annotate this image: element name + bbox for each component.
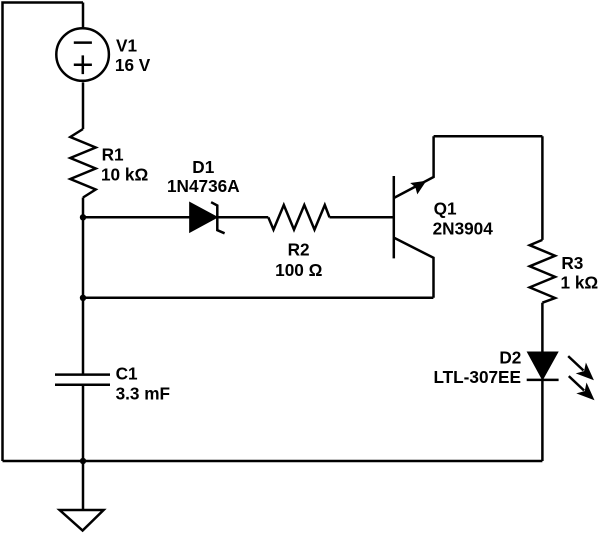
ground (60, 510, 104, 531)
svg-text:D1: D1 (192, 157, 214, 177)
wire R3 to D2 (541, 303, 544, 353)
label V1 (115, 36, 151, 75)
node junction ground (80, 458, 86, 464)
svg-text:V1: V1 (116, 36, 137, 56)
svg-text:3.3 mF: 3.3 mF (116, 384, 170, 404)
label Q1 (433, 198, 494, 238)
wire V1 top lead (82, 3, 85, 28)
svg-text:C1: C1 (116, 364, 138, 384)
svg-text:Q1: Q1 (434, 198, 457, 218)
wire R2 to Q1 base (330, 216, 394, 219)
resistor R3 (530, 240, 555, 303)
wire V1 to R1 (82, 82, 85, 129)
zener diode D1 (190, 202, 224, 233)
node junction bottom loop (80, 295, 86, 301)
svg-text:1N4736A: 1N4736A (167, 176, 240, 196)
voltage source V1 (56, 28, 109, 81)
label C1 (116, 364, 170, 404)
wire R1 down to C1 (82, 198, 85, 375)
wire bottom rail (3, 460, 543, 463)
wire Q1 emitter to top rail (434, 135, 543, 138)
wire node to D1 (83, 216, 190, 219)
wire to ground (82, 461, 85, 510)
V1 minus sign (74, 41, 92, 44)
label D2 (433, 347, 521, 387)
capacitor C1 (55, 375, 110, 385)
label R2 (275, 240, 322, 280)
svg-text:16 V: 16 V (115, 55, 151, 75)
V1 plus sign (74, 55, 92, 74)
resistor R2 (268, 205, 329, 230)
svg-text:D2: D2 (499, 347, 521, 367)
label R3 (561, 253, 599, 292)
LED light arrow 2 (569, 376, 595, 400)
wire top-left loop (3, 3, 84, 462)
svg-text:10 kΩ: 10 kΩ (101, 165, 148, 185)
wire D2 to bottom rail (541, 380, 544, 461)
node junction R1/D1 (80, 214, 86, 220)
svg-text:LTL-307EE: LTL-307EE (433, 367, 521, 387)
svg-text:2N3904: 2N3904 (433, 219, 494, 239)
svg-text:100 Ω: 100 Ω (275, 260, 322, 280)
LED light arrow 1 (568, 356, 594, 380)
wire right rail to R3 (541, 136, 544, 240)
transistor Q1 (394, 136, 434, 297)
label D1 (167, 157, 240, 196)
resistor R1 (70, 129, 95, 198)
svg-text:1 kΩ: 1 kΩ (561, 272, 599, 292)
wire D1 to R2 (217, 216, 268, 219)
svg-text:R1: R1 (102, 145, 124, 165)
LED D2 (527, 353, 559, 380)
svg-text:R2: R2 (288, 240, 310, 260)
label R1 (101, 145, 148, 185)
wire C1 to bottom rail (82, 385, 85, 461)
svg-text:R3: R3 (561, 253, 583, 273)
wire bottom loop to Q1 collector (83, 297, 433, 300)
